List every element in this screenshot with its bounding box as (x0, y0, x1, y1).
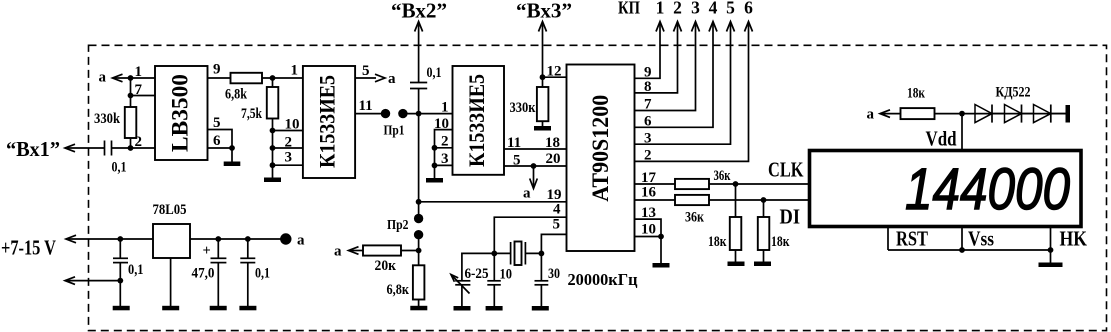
svg-text:a: a (334, 244, 342, 260)
svg-text:330k: 330k (94, 111, 121, 127)
wire pin2 IE5#1 (273, 147, 303, 149)
junction pin3 (IE5 #1) (270, 162, 276, 168)
pin 11 label IE5#2 (507, 135, 521, 151)
ground (0,1 output) (239, 306, 256, 311)
ground (LB3500 pin6) (224, 148, 241, 166)
wire Vdd to display (961, 114, 963, 151)
diode VD2 КД522 (1005, 105, 1034, 123)
ground (78L05) (162, 258, 179, 310)
ground (pins 13/10) (653, 263, 670, 268)
wire pin8 to КП2 arrow (635, 22, 682, 93)
node a (LB3500 pin1) (99, 70, 123, 86)
ground (18к CLK) (728, 262, 745, 267)
svg-text:18к: 18к (708, 234, 727, 250)
diode VD1 КД522 (975, 105, 1005, 123)
svg-text:HK: HK (1060, 226, 1088, 250)
wire Вх1 input with arrow (65, 144, 104, 152)
resistor 6,8к (387, 265, 425, 306)
pin 5 label AT90S (553, 217, 561, 233)
svg-text:47,0: 47,0 (192, 266, 215, 282)
wire pin10 IE5#2 bracket (435, 130, 453, 178)
pin 9 label AT90S (644, 65, 652, 81)
svg-text:К1533ИЕ5: К1533ИЕ5 (315, 75, 340, 168)
wire pins13/10 bracket (635, 219, 662, 263)
svg-text:4: 4 (553, 202, 561, 218)
junction Vdd (959, 111, 965, 117)
svg-text:Пр2: Пр2 (387, 218, 409, 233)
pin 10 label IE5#2 (434, 116, 449, 132)
resistor 330к (510, 77, 549, 126)
capacitor 10 (487, 267, 512, 307)
svg-text:6: 6 (213, 133, 221, 149)
wire Вх2 arrow up (415, 22, 423, 83)
counter U3 К1533ИЕ5 #2 (453, 66, 505, 175)
svg-text:6-25: 6-25 (465, 266, 489, 282)
pin 10 label IE5#1 (285, 117, 300, 133)
junction 6,8k/7,5k (270, 75, 276, 81)
wire pin2 IE5#2 (435, 147, 453, 149)
crystal ZQ 20000кГц (494, 242, 541, 266)
svg-text:10: 10 (434, 116, 449, 132)
svg-text:18: 18 (545, 135, 560, 151)
label 20000кГц (568, 270, 638, 289)
svg-text:16: 16 (641, 185, 657, 201)
svg-text:КД522: КД522 (996, 85, 1031, 101)
junction Пр1/Вх2 (416, 111, 422, 117)
ground (IE5#2 pins) (426, 178, 443, 183)
svg-text:20к: 20к (375, 258, 397, 274)
wire lower return with arrow (65, 277, 120, 285)
svg-text:30: 30 (548, 266, 560, 282)
wire DI line to display (709, 199, 810, 201)
capacitor 0,1 (Вх1 input) (105, 141, 127, 176)
pin 11 label IE5#1 (359, 98, 373, 114)
svg-text:3: 3 (691, 0, 700, 18)
junction Вх3/330к (540, 74, 546, 80)
svg-text:1: 1 (291, 63, 299, 79)
junction pin10 (658, 234, 664, 240)
pin 12 label AT90S (547, 64, 562, 80)
svg-text:5: 5 (553, 217, 561, 233)
microcontroller U4 AT90S1200 (567, 65, 635, 252)
resistor 330k (94, 78, 136, 148)
node a (down arrow at pin20) (523, 166, 537, 202)
resistor 18к (CLK pulldown) (708, 184, 741, 262)
pin 17 label AT90S (641, 170, 657, 186)
svg-text:6,8k: 6,8k (225, 87, 248, 103)
pin 9 label LB3500 (213, 62, 221, 78)
pin 10 label AT90S (641, 222, 656, 238)
resistor 36к (DI) (675, 195, 709, 226)
pin 1 label IE5#2 (441, 100, 449, 116)
wire pin17 to 36к (635, 183, 676, 185)
node КП label (618, 0, 640, 18)
pin 13 label AT90S (641, 205, 656, 221)
trimmer capacitor 6-25 (451, 253, 494, 306)
node Вх2 label (391, 0, 447, 23)
svg-text:“Вх3”: “Вх3” (516, 0, 572, 23)
display module HG1 (810, 151, 1082, 227)
junction lower return (117, 278, 123, 284)
wire Пр2 to 20к junction (418, 235, 420, 266)
svg-text:2: 2 (441, 134, 449, 150)
svg-text:0,1: 0,1 (255, 266, 270, 282)
node КП 4 label (709, 0, 718, 18)
svg-text:Vss: Vss (968, 226, 994, 250)
pin 7 label LB3500 (135, 82, 143, 98)
pin 5 label IE5#1 (362, 63, 370, 79)
ground (6-25) (454, 306, 471, 311)
svg-text:9: 9 (213, 62, 221, 78)
node +7-15 V label (1, 236, 56, 260)
pin 5 label LB3500 (213, 115, 221, 131)
svg-text:a: a (388, 71, 396, 87)
junction 20к/6,8к (416, 248, 422, 254)
svg-text:11: 11 (359, 98, 373, 114)
svg-text:5: 5 (213, 115, 221, 131)
svg-text:10: 10 (285, 117, 300, 133)
svg-text:2: 2 (673, 0, 682, 18)
junction pin2 (128, 145, 134, 151)
svg-text:20: 20 (546, 151, 561, 167)
wire pin9 LB3500 (208, 77, 231, 79)
pin 5 label IE5#2 (513, 153, 521, 169)
pin HK stub (1051, 226, 1088, 250)
svg-text:7,5k: 7,5k (241, 106, 263, 122)
wire CLK line to display (709, 183, 810, 185)
pin 7 label AT90S (644, 97, 652, 113)
wire cap to LB3500 pin2 (112, 147, 156, 149)
ground (18к DI) (754, 262, 771, 267)
node КП 1 label (656, 0, 665, 18)
op-amp U1 LB3500 (155, 66, 208, 160)
wire pin9 to КП1 arrow (635, 22, 665, 79)
wire pin10 IE5#1 (273, 130, 303, 132)
wire pin7 to КП3 arrow (635, 22, 700, 111)
ground (input cap) (113, 306, 130, 311)
jumper Пр2 (387, 214, 423, 240)
wire pin5 LB3500 (208, 130, 233, 149)
svg-text:0,1: 0,1 (427, 65, 442, 81)
resistor 6,8k (225, 73, 262, 103)
node КП 3 label (691, 0, 700, 18)
svg-text:CLK: CLK (768, 158, 804, 182)
svg-text:AT90S1200: AT90S1200 (588, 95, 613, 202)
svg-text:2: 2 (135, 134, 143, 150)
terminal bar after diodes (1066, 105, 1071, 123)
ground (330к) (534, 126, 551, 131)
wire pin3 to КП5 arrow (635, 22, 735, 145)
wire +7-15V input with arrow (66, 235, 153, 243)
capacitor 0,1 (Вх2) (410, 65, 442, 89)
pin 19 label AT90S (547, 187, 562, 203)
wire pin1 LB3500 (113, 77, 156, 79)
pin 4 label AT90S (553, 202, 561, 218)
wire pin11 IE5#1 (355, 113, 381, 115)
junction pin19 branch (416, 199, 422, 205)
wire 78L05 output (190, 238, 282, 240)
wire pin4 to crystal (494, 217, 566, 281)
svg-text:КП: КП (618, 0, 640, 18)
wire pin7 LB3500 (131, 95, 156, 97)
junction pin10 (IE5 #1) (270, 128, 276, 134)
svg-text:1: 1 (135, 64, 143, 80)
pin 3 label IE5#1 (285, 150, 293, 166)
svg-text:a: a (297, 233, 305, 249)
wire pin11 IE5#2 to pin18 AT90S (504, 148, 567, 150)
svg-text:a: a (99, 70, 107, 86)
jumper Пр1 (381, 109, 408, 139)
svg-text:RST: RST (896, 227, 928, 251)
svg-text:3: 3 (441, 151, 449, 167)
junction pin2 (IE5 #1) (270, 145, 276, 151)
pin RST stub (888, 227, 928, 251)
capacitor 30 (535, 253, 561, 306)
junction crystal right (539, 251, 545, 257)
wire pin5 to crystal (541, 234, 566, 253)
wire 18к to diodes (935, 113, 1067, 115)
junction pin5/pin6 (229, 145, 235, 151)
svg-text:1: 1 (656, 0, 665, 18)
capacitor 0,1 (input) (113, 239, 144, 306)
junction 47,0 (215, 236, 221, 242)
svg-text:3: 3 (285, 150, 293, 166)
svg-text:10: 10 (500, 267, 513, 283)
dashed enclosure border (89, 45, 1107, 330)
pin 2 label AT90S (644, 148, 652, 164)
junction Vss (959, 247, 965, 253)
svg-text:5: 5 (726, 0, 735, 18)
junction 0,1 out (245, 236, 251, 242)
node Вх1 label (6, 137, 60, 161)
pin 6 label LB3500 (213, 133, 221, 149)
svg-text:2: 2 (285, 135, 293, 151)
counter U2 К1533ИЕ5 #1 (303, 66, 355, 178)
junction pin3 IE5#2 (432, 163, 438, 169)
capacitor 0,1 (output) (240, 239, 270, 306)
svg-text:LB3500: LB3500 (168, 74, 193, 152)
wire cap to Пр1 junction (418, 89, 420, 114)
ground (IE5 #1 pins) (264, 178, 281, 183)
svg-text:12: 12 (547, 64, 562, 80)
svg-text:+: + (203, 243, 211, 259)
wire vertical to Пр2 (418, 114, 420, 219)
wire pin5 IE5#2 to pin20 AT90S (504, 165, 567, 167)
junction HK (1048, 247, 1054, 253)
wire 6,8k to K1533IE5 pin1 (262, 77, 303, 79)
wire pin3 IE5#2 (435, 164, 453, 166)
display reading 144000 (905, 157, 1070, 222)
junction input cap (117, 236, 123, 242)
svg-text:+7-15 V: +7-15 V (1, 236, 56, 260)
svg-text:5: 5 (362, 63, 370, 79)
wire pin12 AT90S (543, 76, 567, 78)
resistor 7,5k (241, 78, 278, 178)
pin 20 label AT90S (546, 151, 561, 167)
svg-text:20000кГц: 20000кГц (568, 270, 638, 289)
svg-text:18к: 18к (771, 234, 790, 250)
svg-text:a: a (523, 186, 531, 202)
node a (Vdd feed) with arrow (867, 107, 891, 123)
resistor 18к (DI pulldown) (758, 200, 790, 262)
capacitor 47,0 electrolytic (192, 239, 227, 306)
junction crystal left (491, 251, 497, 257)
svg-text:К1533ИЕ5: К1533ИЕ5 (464, 74, 489, 167)
svg-text:“Вх2”: “Вх2” (391, 0, 447, 23)
label КД522 (996, 85, 1031, 101)
svg-text:6: 6 (744, 0, 753, 18)
resistor 18к (Vdd) (880, 86, 935, 120)
node Vdd label (926, 127, 957, 151)
svg-text:78L05: 78L05 (153, 202, 187, 218)
svg-text:0,1: 0,1 (112, 160, 127, 176)
svg-text:DI: DI (780, 205, 801, 229)
pin 2 label LB3500 (135, 134, 143, 150)
svg-text:“Вх1”: “Вх1” (6, 137, 60, 161)
wire pin19 AT90S1200 (419, 201, 567, 203)
node КП 2 label (673, 0, 682, 18)
junction CLK/18к (733, 181, 739, 187)
node КП 5 label (726, 0, 735, 18)
node Вх3 label (516, 0, 572, 23)
pin Vss stub (962, 226, 994, 250)
svg-text:Vdd: Vdd (926, 127, 957, 151)
wire Пр1 to IE5#2 pin1 (403, 113, 453, 115)
wire pin6 to КП4 arrow (635, 22, 718, 128)
node КП 6 label (744, 0, 753, 18)
pin 2 label IE5#1 (285, 135, 293, 151)
junction pin5/pin20 (531, 163, 537, 169)
node a (power, big dot) (280, 233, 305, 249)
svg-text:36к: 36к (714, 168, 731, 184)
svg-text:10: 10 (641, 222, 656, 238)
svg-text:0,1: 0,1 (128, 262, 144, 278)
pin 16 label AT90S (641, 185, 657, 201)
wire pin6 LB3500 (208, 147, 233, 149)
pin 2 label IE5#2 (441, 134, 449, 150)
ground (HK) (1039, 250, 1063, 267)
node DI label (780, 205, 801, 229)
diode VD3 КД522 (1034, 105, 1067, 123)
node CLK label (768, 158, 804, 182)
junction pin1/330k top (128, 75, 134, 81)
voltage regulator 78L05 (153, 202, 191, 258)
junction pin2 IE5#2 (432, 145, 438, 151)
svg-text:Пр1: Пр1 (384, 124, 405, 139)
node a (20к) with arrow (334, 244, 359, 260)
ground (47,0) (210, 306, 227, 311)
pin 1 label IE5#1 (291, 63, 299, 79)
ground (cap 10) (486, 306, 503, 311)
svg-text:36к: 36к (685, 210, 704, 226)
wire pin16 to 36к (635, 199, 676, 201)
wire pin5 IE5#1 to arrow a (355, 71, 396, 87)
svg-text:a: a (867, 107, 875, 123)
junction DI/18к (761, 197, 767, 203)
ground (cap 30) (532, 306, 549, 311)
wire Вх3 arrow up (539, 22, 547, 78)
wire RST-Vss-HK (888, 249, 1051, 251)
svg-text:1: 1 (441, 100, 449, 116)
svg-text:144000: 144000 (905, 157, 1070, 222)
svg-text:4: 4 (709, 0, 718, 18)
svg-text:330к: 330к (510, 100, 536, 116)
pin 3 label IE5#2 (441, 151, 449, 167)
pin 8 label AT90S (644, 79, 652, 95)
junction pin7 (128, 93, 134, 99)
pin 6 label AT90S (644, 114, 652, 130)
pin 3 label AT90S (644, 131, 652, 147)
svg-text:18к: 18к (907, 86, 925, 102)
svg-text:7: 7 (135, 82, 143, 98)
ground (6,8к) (410, 306, 427, 311)
pin 18 label AT90S (545, 135, 560, 151)
svg-text:6,8к: 6,8к (387, 282, 410, 298)
pin 1 label LB3500 (135, 64, 143, 80)
resistor 36к (CLK) (675, 168, 731, 189)
wire pin2 to КП6 arrow (635, 22, 753, 162)
wire pin3 IE5#1 (273, 164, 303, 166)
resistor 20к (349, 245, 419, 274)
